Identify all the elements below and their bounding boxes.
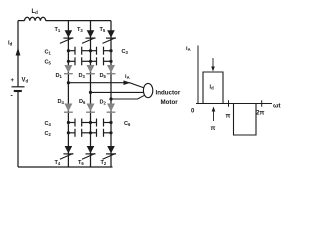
junction node leg1 row1: [67, 49, 70, 52]
wire leg 1 vertical: [67, 21, 69, 167]
svg-text:D4: D4: [58, 99, 65, 105]
svg-text:C1: C1: [45, 49, 52, 55]
svg-text:ωt: ωt: [273, 103, 281, 110]
diode D6: [86, 104, 95, 113]
svg-text:C3: C3: [122, 49, 129, 55]
wire leg 2 vertical: [90, 21, 92, 167]
motor circle: [143, 83, 152, 97]
junction node leg3 row4: [109, 131, 112, 134]
svg-text:π: π: [226, 113, 231, 120]
svg-text:T6: T6: [78, 160, 84, 166]
svg-text:+: +: [11, 78, 15, 84]
junction node leg2 row1: [89, 49, 92, 52]
svg-text:D1: D1: [56, 73, 63, 79]
chart x-axis: [196, 103, 272, 105]
thyristor T5: [103, 30, 117, 43]
svg-text:T3: T3: [77, 27, 83, 33]
junction node leg2 row4: [89, 131, 92, 134]
junction node leg3 row3: [109, 121, 112, 124]
svg-text:Id: Id: [210, 85, 215, 91]
svg-text:T4: T4: [55, 160, 61, 166]
capacitor row 3: [68, 119, 111, 127]
svg-text:T2: T2: [101, 160, 107, 166]
junction node leg1 row3: [67, 121, 70, 124]
wire top rail left segment: [18, 20, 25, 22]
svg-text:D6: D6: [79, 99, 86, 105]
junction node leg2 row2: [89, 60, 92, 63]
svg-text:C2: C2: [45, 131, 52, 137]
thyristor T4: [60, 146, 74, 159]
svg-text:Vd: Vd: [22, 78, 29, 84]
svg-text:T1: T1: [55, 27, 61, 33]
wire top rail right segment: [46, 20, 111, 22]
wire leg 3 vertical: [110, 21, 112, 167]
chart y-axis: [197, 46, 199, 104]
wire left vertical (upper): [17, 21, 19, 87]
junction node phase A: [67, 81, 70, 84]
diode D2: [107, 104, 116, 113]
tick pi: [228, 100, 230, 106]
svg-text:C4: C4: [45, 121, 52, 127]
inductor Ld: [25, 17, 46, 20]
arrow below axis at pi region: [213, 111, 215, 122]
svg-text:Ld: Ld: [32, 9, 39, 15]
capacitor row 4: [68, 129, 111, 137]
junction node leg1 row4: [67, 131, 70, 134]
wire left vertical (lower): [17, 91, 19, 167]
svg-text:2π: 2π: [256, 110, 265, 117]
svg-text:Inductor: Inductor: [156, 90, 181, 97]
svg-text:T5: T5: [100, 27, 106, 33]
wire phase C line: [111, 95, 145, 99]
svg-text:C5: C5: [45, 59, 52, 65]
diode D1: [64, 65, 73, 74]
diode D4: [64, 104, 73, 113]
svg-text:C6: C6: [124, 121, 131, 127]
junction node phase B: [89, 91, 92, 94]
capacitor row 2: [68, 57, 111, 65]
svg-text:Motor: Motor: [161, 99, 179, 106]
svg-text:D5: D5: [100, 73, 107, 79]
thyristor T2: [103, 146, 117, 159]
junction node leg3 row1: [109, 49, 112, 52]
wire phase B line: [91, 91, 144, 93]
diode D5: [107, 65, 116, 74]
junction node leg3 row2: [109, 60, 112, 63]
waveform negative pulse: [234, 104, 257, 136]
capacitor row 1: [68, 47, 111, 55]
diode D3: [86, 65, 95, 74]
thyristor T3: [82, 30, 96, 43]
junction node leg2 row3: [89, 121, 92, 124]
battery Vd: [12, 87, 25, 91]
wire bottom rail: [18, 166, 113, 168]
junction node leg1 row2: [67, 60, 70, 63]
svg-text:iA: iA: [186, 46, 191, 52]
junction node phase C: [109, 97, 112, 100]
arrow iA on phase A: [124, 80, 131, 85]
thyristor T6: [82, 146, 96, 159]
tick 2pi: [261, 100, 263, 106]
svg-text:D2: D2: [100, 99, 107, 105]
current arrow id on left wire: [16, 48, 21, 56]
svg-text:D3: D3: [79, 73, 86, 79]
arrow above pulse: [212, 58, 214, 68]
thyristor T1: [60, 30, 74, 43]
wire phase A line: [68, 83, 144, 88]
svg-text:π: π: [211, 125, 216, 132]
svg-text:id: id: [8, 41, 13, 47]
svg-text:iA: iA: [125, 74, 130, 80]
waveform positive pulse: [203, 72, 223, 104]
